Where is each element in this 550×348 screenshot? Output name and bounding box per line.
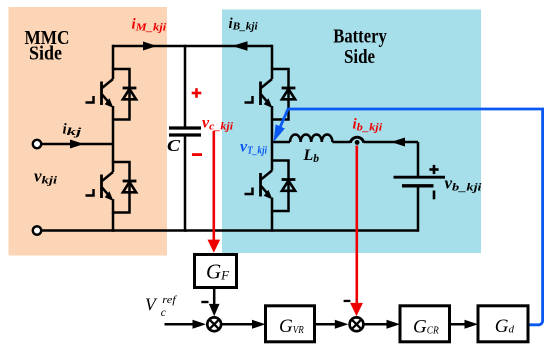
- plus sign vb: [429, 165, 438, 174]
- block GCR: [400, 306, 450, 342]
- arrow sum2 to GCR: [363, 323, 389, 326]
- MMC side region: [9, 7, 168, 256]
- red measurement line vc: [213, 131, 216, 241]
- svg-text:C: C: [167, 136, 181, 155]
- IGBT MMC lower with anti-parallel diode: [86, 161, 137, 214]
- wire top bus: [113, 45, 272, 48]
- IGBT battery lower with anti-parallel diode: [245, 160, 296, 213]
- terminal top: [33, 140, 41, 148]
- inductor Lb: [290, 134, 332, 142]
- wire bottom bus: [42, 229, 419, 232]
- minus sign sum2: [344, 300, 351, 302]
- arrowhead GF to sum1: [209, 304, 220, 316]
- arrow GVR to sum2: [314, 323, 339, 326]
- wire input ikj: [42, 143, 114, 146]
- label Battery Side: [333, 25, 387, 68]
- plus sign vc: [192, 88, 202, 98]
- svg-text:ref: ref: [162, 294, 178, 306]
- IGBT MMC upper with anti-parallel diode: [86, 68, 137, 121]
- svg-text:Battery: Battery: [333, 25, 387, 47]
- red arrowhead ib: [350, 303, 363, 316]
- svg-text:Side: Side: [344, 46, 375, 68]
- arrow sum1 to GVR: [221, 323, 254, 326]
- svg-text:c: c: [161, 307, 166, 319]
- battery Vb plates: [394, 177, 446, 186]
- current sensor node ib: [350, 137, 363, 145]
- IGBT battery upper with anti-parallel diode: [245, 68, 296, 121]
- summing junction sum2: [350, 317, 364, 331]
- svg-text:Side: Side: [29, 43, 62, 65]
- block GF: [195, 255, 237, 288]
- label MMC Side: [25, 27, 70, 64]
- red measurement line ib: [355, 146, 358, 305]
- red arrowhead vc: [208, 240, 221, 253]
- minus sign sum1: [201, 301, 208, 303]
- minus sign vc: [192, 153, 202, 156]
- arrow i_B_kji: [232, 41, 248, 50]
- terminal bottom: [33, 226, 41, 234]
- wire battery vertical: [271, 45, 274, 232]
- arrow i_kj: [70, 140, 84, 149]
- minus bar vb: [433, 191, 436, 200]
- summing junction sum1: [207, 317, 221, 331]
- block Gd: [478, 306, 528, 342]
- wire capacitor column: [184, 45, 187, 232]
- Battery side region: [222, 10, 481, 254]
- block GVR: [266, 306, 315, 342]
- arrow battery current: [391, 138, 405, 147]
- input arrow to sum1: [165, 323, 195, 326]
- wire GF to sum1: [213, 288, 216, 306]
- blue arrowhead vT: [274, 124, 285, 142]
- capacitor C plates: [169, 128, 201, 135]
- wire MMC vertical: [112, 45, 115, 232]
- arrow i_M_kji: [143, 42, 157, 51]
- wire battery branch: [272, 142, 418, 232]
- arrow GCR to Gd: [450, 323, 468, 326]
- blue feedback path: [280, 109, 543, 325]
